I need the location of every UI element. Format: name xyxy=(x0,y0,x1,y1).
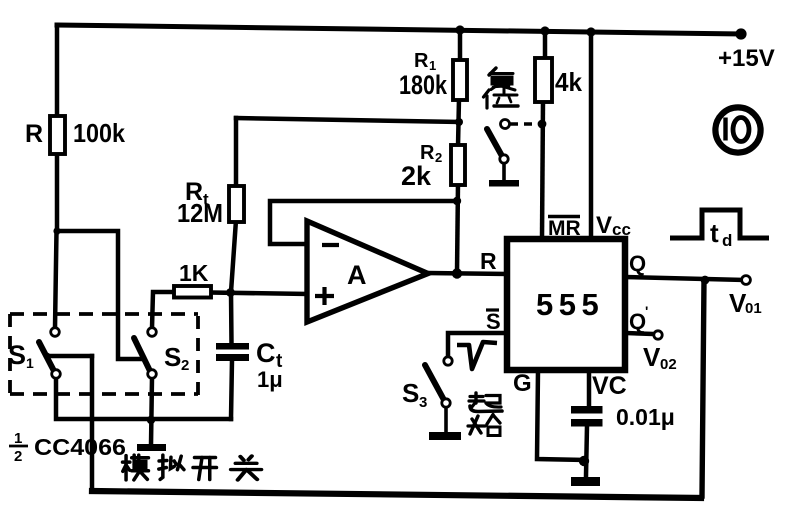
svg-text:01: 01 xyxy=(745,300,762,317)
svg-text:100k: 100k xyxy=(73,118,125,148)
svg-text:V: V xyxy=(596,212,612,239)
svg-text:G: G xyxy=(513,370,532,397)
svg-text:d: d xyxy=(722,231,732,250)
svg-text:S: S xyxy=(8,340,26,370)
svg-text:': ' xyxy=(645,303,648,319)
svg-text:R: R xyxy=(25,120,43,148)
svg-text:3: 3 xyxy=(419,394,427,411)
svg-text:V: V xyxy=(643,342,661,372)
svg-text:4k: 4k xyxy=(555,67,583,97)
svg-text:R: R xyxy=(480,248,497,274)
svg-text:02: 02 xyxy=(660,356,677,373)
svg-text:2: 2 xyxy=(14,448,22,465)
svg-text:1μ: 1μ xyxy=(257,367,283,392)
svg-text:+15V: +15V xyxy=(718,45,775,72)
svg-text:12M: 12M xyxy=(177,198,223,228)
svg-text:180k: 180k xyxy=(399,70,448,100)
svg-text:R: R xyxy=(414,50,429,72)
svg-text:VC: VC xyxy=(592,372,627,400)
svg-text:2: 2 xyxy=(181,357,189,374)
svg-text:S: S xyxy=(486,309,501,334)
svg-text:cc: cc xyxy=(612,220,631,239)
svg-text:S: S xyxy=(402,378,419,408)
svg-text:1: 1 xyxy=(14,430,22,447)
svg-text:CC4066: CC4066 xyxy=(34,434,126,460)
svg-text:C: C xyxy=(256,338,276,368)
svg-text:0.01μ: 0.01μ xyxy=(616,404,675,430)
svg-text:1K: 1K xyxy=(179,260,209,286)
svg-text:A: A xyxy=(347,260,367,290)
svg-text:2k: 2k xyxy=(401,161,432,191)
svg-text:t: t xyxy=(710,218,719,248)
svg-text:Q: Q xyxy=(629,251,646,276)
svg-text:S: S xyxy=(164,342,181,372)
svg-text:2: 2 xyxy=(435,150,442,165)
svg-text:555: 555 xyxy=(536,287,604,322)
svg-text:Q: Q xyxy=(629,309,646,334)
svg-text:MR: MR xyxy=(548,217,581,240)
svg-text:1: 1 xyxy=(26,355,34,371)
